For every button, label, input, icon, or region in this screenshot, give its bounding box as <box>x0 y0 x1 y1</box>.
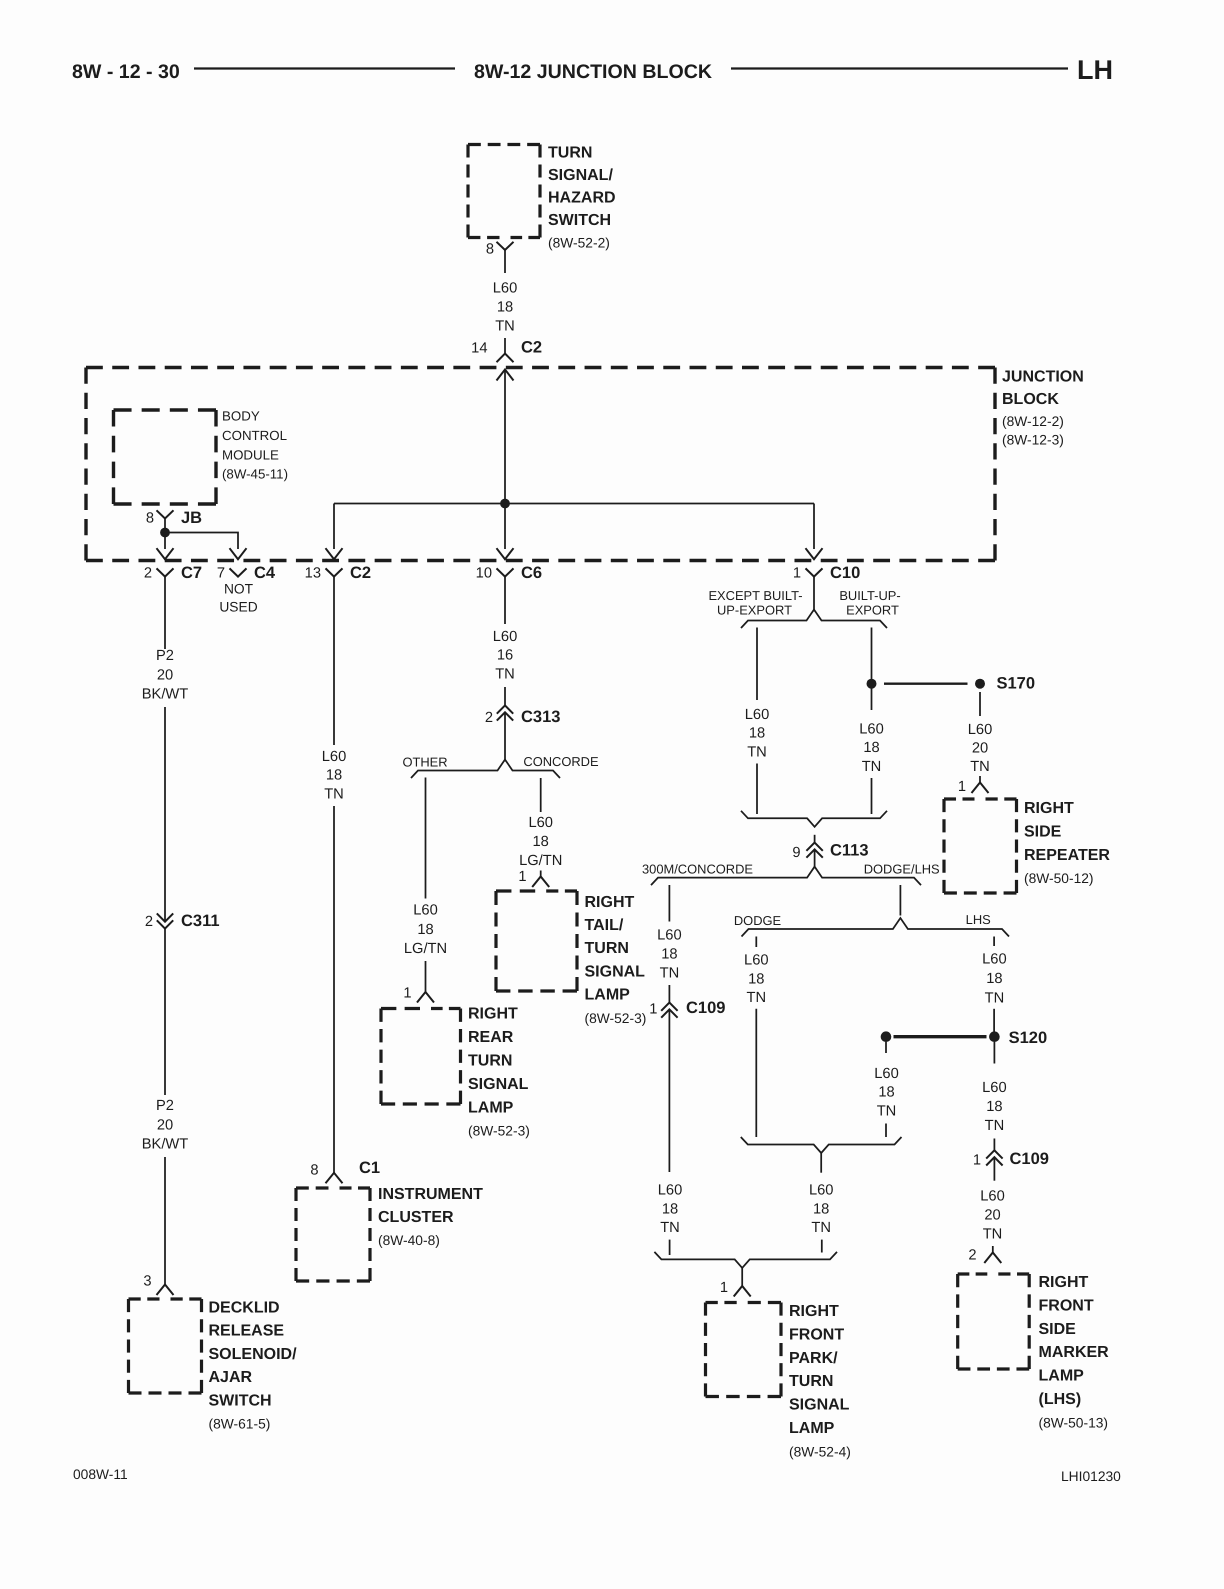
svg-text:18: 18 <box>661 947 677 963</box>
svg-text:SWITCH: SWITCH <box>209 1392 272 1409</box>
svg-text:9: 9 <box>792 845 800 861</box>
svg-text:TN: TN <box>495 666 515 682</box>
svg-text:JUNCTION: JUNCTION <box>1002 369 1084 386</box>
svg-text:DECKLID: DECKLID <box>209 1300 280 1317</box>
svg-text:TN: TN <box>985 990 1005 1006</box>
svg-text:C10: C10 <box>830 564 860 582</box>
svg-text:L60: L60 <box>982 952 1007 968</box>
svg-text:RIGHT: RIGHT <box>1039 1274 1089 1291</box>
svg-text:SWITCH: SWITCH <box>548 212 611 229</box>
svg-text:S120: S120 <box>1009 1029 1048 1047</box>
svg-text:BK/WT: BK/WT <box>142 1137 189 1153</box>
svg-text:CLUSTER: CLUSTER <box>378 1209 454 1226</box>
svg-text:1: 1 <box>958 779 966 795</box>
svg-text:20: 20 <box>984 1207 1000 1223</box>
svg-text:TN: TN <box>747 990 767 1006</box>
svg-text:1: 1 <box>793 566 801 582</box>
svg-text:LH: LH <box>1077 55 1113 85</box>
svg-text:8W - 12 - 30: 8W - 12 - 30 <box>72 61 180 83</box>
svg-text:TURN: TURN <box>548 145 592 162</box>
svg-text:AJAR: AJAR <box>209 1369 253 1386</box>
svg-text:USED: USED <box>219 600 257 615</box>
svg-text:RIGHT: RIGHT <box>468 1006 518 1023</box>
svg-text:HAZARD: HAZARD <box>548 189 616 206</box>
svg-text:TN: TN <box>660 966 680 982</box>
svg-text:(8W-45-11): (8W-45-11) <box>222 467 288 482</box>
svg-text:(8W-52-3): (8W-52-3) <box>585 1011 647 1026</box>
svg-text:18: 18 <box>662 1201 678 1217</box>
svg-text:10: 10 <box>476 566 492 582</box>
svg-text:1: 1 <box>973 1153 981 1169</box>
svg-text:C109: C109 <box>686 999 725 1017</box>
svg-text:L60: L60 <box>493 629 518 645</box>
svg-text:MARKER: MARKER <box>1039 1344 1110 1361</box>
svg-text:SIGNAL/: SIGNAL/ <box>548 167 613 184</box>
svg-text:16: 16 <box>497 648 513 664</box>
svg-text:TURN: TURN <box>789 1373 833 1390</box>
svg-text:TN: TN <box>877 1104 897 1120</box>
svg-text:LHI01230: LHI01230 <box>1061 1469 1121 1484</box>
svg-text:18: 18 <box>417 922 433 938</box>
svg-text:1: 1 <box>518 869 526 885</box>
svg-text:L60: L60 <box>982 1080 1007 1096</box>
svg-text:2: 2 <box>145 914 153 930</box>
svg-text:L60: L60 <box>809 1183 834 1199</box>
svg-text:SOLENOID/: SOLENOID/ <box>209 1346 298 1363</box>
svg-text:TAIL/: TAIL/ <box>585 917 624 934</box>
svg-text:(8W-52-3): (8W-52-3) <box>468 1124 530 1139</box>
svg-text:20: 20 <box>972 740 988 756</box>
svg-text:18: 18 <box>748 971 764 987</box>
svg-text:RIGHT: RIGHT <box>1024 800 1074 817</box>
svg-text:1: 1 <box>649 1002 657 1018</box>
svg-text:JB: JB <box>181 509 202 527</box>
svg-text:18: 18 <box>533 834 549 850</box>
svg-text:20: 20 <box>157 1117 173 1133</box>
svg-text:TN: TN <box>747 744 767 760</box>
svg-text:C313: C313 <box>521 708 560 726</box>
svg-text:P2: P2 <box>156 1098 174 1114</box>
svg-text:C7: C7 <box>181 564 202 582</box>
svg-text:(8W-40-8): (8W-40-8) <box>378 1233 440 1248</box>
svg-text:DODGE/LHS: DODGE/LHS <box>864 862 940 877</box>
svg-text:LAMP: LAMP <box>585 987 631 1004</box>
svg-text:EXCEPT BUILT-: EXCEPT BUILT- <box>708 588 802 603</box>
svg-text:8W-12 JUNCTION BLOCK: 8W-12 JUNCTION BLOCK <box>474 61 712 83</box>
svg-text:FRONT: FRONT <box>1039 1297 1094 1314</box>
svg-text:C2: C2 <box>350 564 371 582</box>
svg-text:BLOCK: BLOCK <box>1002 391 1059 408</box>
svg-text:C4: C4 <box>254 564 276 582</box>
svg-text:(8W-52-4): (8W-52-4) <box>789 1444 851 1459</box>
svg-text:8: 8 <box>146 511 154 527</box>
svg-text:RIGHT: RIGHT <box>585 894 635 911</box>
svg-text:18: 18 <box>749 726 765 742</box>
svg-text:TN: TN <box>495 319 515 335</box>
svg-text:18: 18 <box>813 1201 829 1217</box>
svg-text:18: 18 <box>986 1099 1002 1115</box>
svg-text:RIGHT: RIGHT <box>789 1303 839 1320</box>
svg-text:TN: TN <box>970 759 990 775</box>
svg-text:2: 2 <box>968 1248 976 1264</box>
svg-text:C109: C109 <box>1010 1150 1049 1168</box>
svg-text:UP-EXPORT: UP-EXPORT <box>717 603 792 618</box>
svg-text:2: 2 <box>485 710 493 726</box>
svg-text:L60: L60 <box>413 903 438 919</box>
svg-text:C1: C1 <box>359 1159 380 1177</box>
svg-text:L60: L60 <box>658 1183 683 1199</box>
svg-text:L60: L60 <box>968 722 993 738</box>
svg-text:13: 13 <box>305 566 321 582</box>
svg-text:L60: L60 <box>744 953 769 969</box>
svg-text:P2: P2 <box>156 648 174 664</box>
svg-text:14: 14 <box>471 341 487 357</box>
svg-text:LHS: LHS <box>966 912 991 927</box>
svg-text:20: 20 <box>157 667 173 683</box>
svg-text:(8W-12-2): (8W-12-2) <box>1002 414 1064 429</box>
svg-text:(8W-50-12): (8W-50-12) <box>1024 871 1094 886</box>
svg-text:3: 3 <box>143 1274 151 1290</box>
svg-text:SIGNAL: SIGNAL <box>789 1397 850 1414</box>
svg-text:BUILT-UP-: BUILT-UP- <box>839 588 900 603</box>
svg-text:TN: TN <box>862 759 882 775</box>
svg-text:MODULE: MODULE <box>222 447 279 462</box>
svg-text:18: 18 <box>863 740 879 756</box>
svg-text:LAMP: LAMP <box>1039 1368 1085 1385</box>
svg-text:LG/TN: LG/TN <box>404 941 447 957</box>
svg-text:BODY: BODY <box>222 409 260 424</box>
svg-text:PARK/: PARK/ <box>789 1350 838 1367</box>
svg-text:C6: C6 <box>521 564 542 582</box>
svg-text:REAR: REAR <box>468 1029 514 1046</box>
svg-text:L60: L60 <box>493 281 518 297</box>
svg-text:TN: TN <box>985 1118 1005 1134</box>
svg-text:TN: TN <box>983 1226 1003 1242</box>
svg-text:C113: C113 <box>830 842 869 860</box>
svg-text:LAMP: LAMP <box>789 1420 835 1437</box>
svg-text:8: 8 <box>310 1163 318 1179</box>
svg-text:1: 1 <box>720 1280 728 1296</box>
svg-text:1: 1 <box>403 986 411 1002</box>
svg-text:008W-11: 008W-11 <box>73 1467 128 1482</box>
svg-text:FRONT: FRONT <box>789 1326 844 1343</box>
svg-text:BK/WT: BK/WT <box>142 687 189 703</box>
svg-text:CONCORDE: CONCORDE <box>523 754 599 769</box>
svg-text:DODGE: DODGE <box>734 913 782 928</box>
svg-text:SIGNAL: SIGNAL <box>468 1076 529 1093</box>
svg-text:18: 18 <box>878 1085 894 1101</box>
svg-text:L60: L60 <box>657 928 682 944</box>
svg-text:LAMP: LAMP <box>468 1099 514 1116</box>
svg-text:CONTROL: CONTROL <box>222 428 287 443</box>
svg-text:TURN: TURN <box>585 940 629 957</box>
svg-text:LG/TN: LG/TN <box>519 853 562 869</box>
svg-text:(8W-61-5): (8W-61-5) <box>209 1417 271 1432</box>
svg-text:(LHS): (LHS) <box>1039 1391 1082 1408</box>
svg-text:NOT: NOT <box>224 582 254 597</box>
svg-text:EXPORT: EXPORT <box>846 603 899 618</box>
svg-text:L60: L60 <box>322 749 347 765</box>
svg-text:SIDE: SIDE <box>1039 1321 1077 1338</box>
svg-text:L60: L60 <box>874 1066 899 1082</box>
svg-text:TN: TN <box>811 1220 831 1236</box>
svg-text:(8W-50-13): (8W-50-13) <box>1039 1415 1109 1430</box>
svg-text:(8W-12-3): (8W-12-3) <box>1002 433 1064 448</box>
svg-text:S170: S170 <box>997 675 1036 693</box>
svg-text:L60: L60 <box>528 815 553 831</box>
svg-text:REPEATER: REPEATER <box>1024 847 1110 864</box>
svg-text:RELEASE: RELEASE <box>209 1323 285 1340</box>
svg-text:L60: L60 <box>980 1188 1005 1204</box>
svg-text:L60: L60 <box>859 722 884 738</box>
svg-text:2: 2 <box>144 566 152 582</box>
svg-text:L60: L60 <box>745 707 770 723</box>
svg-text:(8W-52-2): (8W-52-2) <box>548 236 610 251</box>
svg-text:18: 18 <box>986 971 1002 987</box>
svg-text:18: 18 <box>326 768 342 784</box>
svg-text:300M/CONCORDE: 300M/CONCORDE <box>642 862 753 877</box>
svg-text:SIDE: SIDE <box>1024 823 1062 840</box>
svg-text:OTHER: OTHER <box>402 755 447 770</box>
svg-text:TN: TN <box>660 1220 680 1236</box>
svg-text:TURN: TURN <box>468 1053 512 1070</box>
svg-text:C311: C311 <box>181 912 220 930</box>
svg-text:INSTRUMENT: INSTRUMENT <box>378 1186 483 1203</box>
svg-text:TN: TN <box>324 786 344 802</box>
svg-text:C2: C2 <box>521 339 542 357</box>
svg-text:8: 8 <box>486 241 494 257</box>
svg-text:SIGNAL: SIGNAL <box>585 963 646 980</box>
svg-text:18: 18 <box>497 300 513 316</box>
svg-text:7: 7 <box>217 566 225 582</box>
